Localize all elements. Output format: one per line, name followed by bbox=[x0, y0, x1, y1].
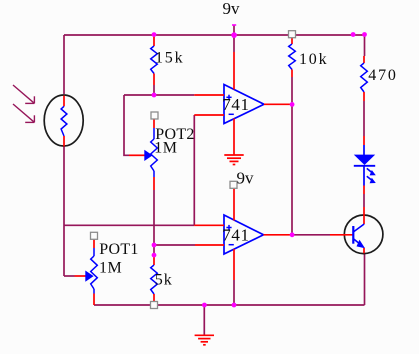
photoresistor LDR bbox=[44, 95, 83, 147]
resistor R2 10k bbox=[289, 38, 296, 77]
resistor R1 15k bbox=[151, 35, 158, 85]
light arrow 2 bbox=[13, 104, 34, 122]
svg-text:5k: 5k bbox=[155, 272, 173, 289]
POT1 wiper arrow bbox=[85, 271, 93, 282]
wire bottom rail bbox=[94, 304, 365, 306]
junction POT2-5k a bbox=[152, 243, 157, 248]
op-amp U1 741 bbox=[194, 52, 292, 155]
svg-text:741: 741 bbox=[222, 95, 249, 114]
svg-text:1M: 1M bbox=[154, 140, 177, 157]
junction POT2-5k b bbox=[152, 253, 157, 258]
junction U2 rail bbox=[232, 303, 237, 308]
svg-text:470: 470 bbox=[368, 67, 397, 84]
wire output to transistor base bbox=[292, 234, 330, 236]
wire row y225 to U2 plus bbox=[64, 224, 194, 226]
potentiometer POT1 1M bbox=[75, 239, 98, 305]
resistor R3 470 bbox=[361, 56, 368, 101]
svg-text:15k: 15k bbox=[155, 49, 184, 66]
wire row y245 to U2 minus bbox=[154, 244, 195, 246]
junction U1 output bbox=[290, 102, 295, 107]
power port 9v top bbox=[232, 24, 236, 26]
op-amp U2 741 bbox=[194, 189, 292, 280]
wire node row y95 to op-amp U1 plus bbox=[124, 94, 194, 96]
svg-text:10k: 10k bbox=[299, 51, 328, 68]
transistor Q1 bbox=[330, 207, 383, 254]
wire corner down to POT2 wiper bbox=[124, 95, 129, 155]
junction U2 output bbox=[290, 232, 295, 237]
connector square POT2 top bbox=[151, 112, 158, 119]
LED D1 bbox=[354, 136, 376, 194]
wire LED to transistor collector bbox=[363, 194, 365, 207]
junction 15k top bbox=[152, 32, 157, 37]
svg-text:1M: 1M bbox=[99, 259, 122, 276]
junction ground rail bbox=[202, 303, 207, 308]
svg-text:9v: 9v bbox=[237, 168, 255, 187]
wire right drop to 470 bbox=[364, 35, 366, 56]
wire U1 top power bbox=[233, 35, 235, 52]
power port 9v mid bbox=[230, 181, 237, 188]
junction 15k bottom node bbox=[152, 93, 157, 98]
svg-text:9v: 9v bbox=[223, 0, 241, 18]
wire top rail bbox=[64, 34, 365, 36]
potentiometer POT2 1M bbox=[129, 119, 157, 190]
wire U1 minus drop bbox=[193, 115, 195, 225]
connector square 5k bottom bbox=[151, 302, 158, 309]
wire ground stem bbox=[203, 305, 205, 335]
wire 9v port drop bbox=[233, 25, 235, 35]
ground bottom bbox=[195, 335, 214, 345]
wire output node column bbox=[291, 104, 293, 235]
light arrow 1 bbox=[13, 85, 34, 103]
wire emitter column to rail bbox=[364, 253, 366, 305]
wire 10k bottom to output node bbox=[291, 77, 293, 104]
wire left drop to LDR bbox=[63, 35, 65, 94]
svg-text:741: 741 bbox=[222, 225, 249, 244]
connector square POT1 top bbox=[91, 232, 98, 239]
junction rail right b bbox=[362, 32, 367, 37]
ground under U1 bbox=[224, 155, 243, 165]
wire LDR bottom column bbox=[63, 147, 65, 277]
wire POT2 bottom column bbox=[153, 190, 155, 256]
svg-text:POT1: POT1 bbox=[99, 241, 138, 258]
wire 470 to LED bbox=[363, 101, 365, 136]
POT2 wiper arrow bbox=[144, 150, 152, 161]
junction 9v rail bbox=[231, 32, 237, 38]
connector square 10k top bbox=[289, 31, 296, 38]
wire corner to POT1 wiper bbox=[64, 275, 75, 277]
wire U2 bottom to rail bbox=[233, 280, 235, 305]
junction rail right a bbox=[351, 32, 356, 37]
wire 15k bottom to node bbox=[153, 85, 155, 95]
resistor R4 5k bbox=[151, 256, 158, 305]
